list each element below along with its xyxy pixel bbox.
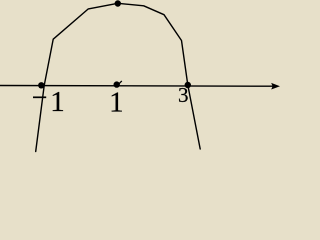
- x-axis: [0, 85, 273, 88]
- svg-text:1: 1: [109, 86, 124, 118]
- point (1,0): [114, 81, 120, 87]
- point (1,f(1)) on peak: [115, 0, 121, 6]
- minus sign of label -1: [33, 96, 46, 98]
- x-axis arrowhead: [271, 83, 280, 90]
- curve y=f(x) polyline: [36, 3, 201, 151]
- svg-text:1: 1: [50, 86, 65, 118]
- point (-1,0): [38, 82, 44, 88]
- tick spur at point (1,0): [119, 81, 122, 84]
- point (3,0): [185, 82, 191, 88]
- svg-text:3: 3: [178, 83, 189, 107]
